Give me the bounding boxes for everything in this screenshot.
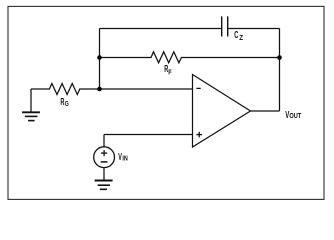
wire: inverting input wire (node to op-amp minus) (100, 88, 193, 90)
wire: non-inverting input wire (104, 134, 193, 136)
net label VOUT (285, 110, 301, 121)
wire: output feedback vertical bus (279, 29, 281, 112)
ground (VIN ground) (95, 181, 113, 190)
value label RG (60, 97, 68, 108)
capacitor C2 plates (222, 16, 228, 36)
value label RF (164, 64, 172, 77)
source VIN minus mark (101, 161, 108, 163)
svg-text:OUT: OUT (289, 111, 301, 120)
wire: left vertical bus from top wire down to inverting node (99, 29, 101, 90)
op-amp plus pin mark (196, 132, 202, 138)
wire: RG left lead down to ground (30, 89, 32, 112)
ground (left, input ground) (22, 112, 40, 120)
resistor RG (31, 84, 100, 95)
svg-text:G: G (65, 99, 69, 108)
source VIN circle (94, 147, 115, 168)
svg-text:F: F (168, 68, 172, 77)
value label VIN (118, 152, 128, 163)
node: junction dot at RG / inverting input (97, 87, 102, 92)
op-amp U1 triangle (193, 75, 251, 148)
svg-text:C: C (234, 30, 238, 41)
value label CZ (234, 30, 243, 42)
source VIN plus mark (101, 150, 107, 156)
border frame (decorative) (8, 6, 324, 199)
wire: top feedback wire right segment (CZ to output node) (228, 28, 279, 30)
resistor RF (100, 52, 280, 63)
wire: VIN riser (103, 135, 105, 148)
svg-text:Z: Z (239, 33, 243, 42)
wire: op-amp output wire (251, 110, 280, 112)
wire: top feedback wire left segment (node A to CZ) (100, 28, 222, 30)
node: junction dot at RF / left bus (97, 55, 102, 60)
wire: VIN to ground stem (103, 168, 105, 180)
op-amp minus pin mark (196, 87, 200, 89)
node: junction dot at RF / output bus (277, 55, 282, 60)
svg-text:IN: IN (122, 153, 128, 162)
